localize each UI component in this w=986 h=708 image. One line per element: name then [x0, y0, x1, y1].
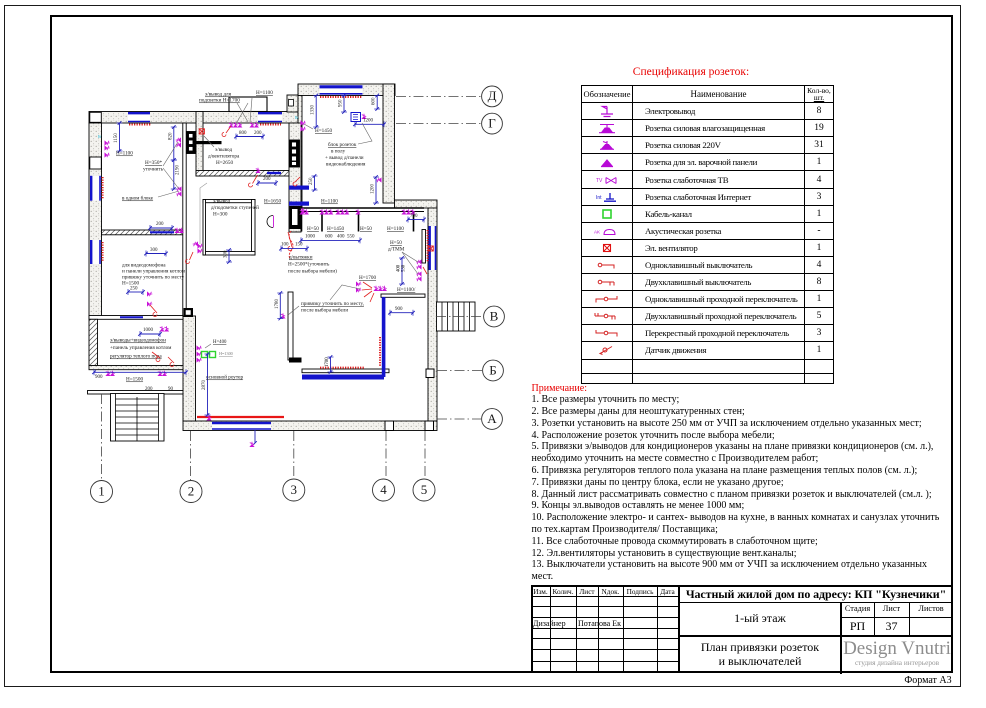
red rays living [362, 282, 374, 302]
svg-text:э/вывод: э/вывод [215, 147, 232, 153]
socket hall top wall [255, 168, 260, 173]
red zigzag kitchen left [289, 231, 293, 259]
svg-text:250: 250 [130, 287, 138, 292]
svg-text:для видеодомофона: для видеодомофона [122, 262, 166, 269]
dim 2870 [205, 352, 211, 417]
svg-text:Н=50: Н=50 [360, 226, 372, 232]
svg-text:д/подсветки ступеней: д/подсветки ступеней [211, 204, 259, 211]
svg-text:А: А [487, 411, 497, 426]
axis line 5 [424, 431, 426, 479]
dim 1780 hall [277, 291, 283, 320]
svg-text:э/вывод: э/вывод [213, 199, 230, 205]
leader H1450 [304, 124, 313, 129]
svg-text:900: 900 [95, 375, 103, 380]
svg-text:300: 300 [150, 248, 158, 253]
svg-text:200: 200 [263, 177, 271, 182]
svg-text:Н=1100: Н=1100 [116, 151, 133, 157]
leader X top [237, 98, 252, 122]
dim kitchen run [299, 237, 362, 243]
svg-text:+ вывод д/панели: + вывод д/панели [325, 155, 364, 161]
radiator living south [320, 367, 364, 369]
svg-text:Н=1100/: Н=1100/ [397, 287, 416, 293]
svg-text:Н=1100: Н=1100 [256, 90, 273, 96]
svg-text:после выбора мебели): после выбора мебели) [288, 268, 337, 275]
leader blok [358, 123, 372, 144]
svg-text:+панель управления котлом: +панель управления котлом [110, 345, 172, 351]
right section text [679, 587, 953, 602]
socket bottom room [206, 415, 211, 420]
leader H400 [205, 344, 211, 348]
switch arrow hall top [249, 175, 258, 187]
svg-text:Н=2500*(уточнить: Н=2500*(уточнить [288, 261, 330, 268]
axis circle В [484, 306, 505, 327]
leader bloke [158, 191, 179, 197]
socket room2 left [174, 228, 184, 233]
socket w7 lower2 [176, 191, 181, 196]
window living east blue band [382, 297, 386, 377]
axis circle Д [482, 86, 503, 107]
socket kitchen row c [335, 209, 349, 214]
dim 820 [171, 125, 177, 162]
format label [878, 675, 978, 686]
svg-text:3: 3 [291, 482, 298, 497]
svg-text:Н=1650: Н=1650 [264, 199, 281, 205]
wall interior room divider left [102, 230, 186, 235]
svg-text:900: 900 [395, 307, 403, 312]
dim 950 [341, 94, 347, 114]
switch arrow boiler [168, 357, 174, 367]
svg-text:основной роутер: основной роутер [206, 374, 243, 381]
shaft squares 2 [290, 140, 300, 167]
socket niche b [416, 271, 421, 281]
column right wall B [426, 369, 434, 378]
axis line 4 [385, 431, 387, 479]
svg-text:200: 200 [145, 387, 153, 392]
radiator left 1 [102, 177, 104, 199]
svg-text:в полу: в полу [331, 149, 346, 155]
svg-text:Н=1100: Н=1100 [387, 226, 404, 232]
wall kitchen shaft column [289, 123, 301, 232]
window living south blue band [302, 375, 384, 380]
wall bedroom right [383, 84, 395, 203]
axis circle А [482, 409, 503, 430]
stairs bottom-left [111, 394, 165, 442]
red rays niche [423, 267, 427, 274]
spec table [581, 85, 834, 384]
socket niche a [416, 259, 421, 269]
socket kitchen row b [319, 209, 333, 214]
socket bedroom left wall b [301, 126, 306, 131]
switch arrow tambour [222, 126, 231, 137]
door blue room divider [150, 231, 174, 233]
socket router wall [197, 345, 202, 350]
window bedroom top [320, 85, 363, 95]
socket router wall c [197, 357, 202, 362]
dim 200 hall [256, 180, 278, 186]
svg-text:Д: Д [488, 88, 497, 103]
svg-text:550: 550 [347, 235, 355, 240]
svg-text:700: 700 [410, 214, 418, 219]
svg-text:2190: 2190 [176, 165, 181, 176]
dim 600 [374, 94, 380, 111]
wall living south [302, 369, 389, 373]
socket w7 lower [176, 186, 181, 191]
svg-text:1330: 1330 [311, 105, 316, 116]
window right wall [429, 226, 437, 270]
svg-text:Н=1450: Н=1450 [327, 226, 344, 232]
leader TMM [402, 252, 418, 274]
svg-text:200: 200 [156, 222, 164, 227]
svg-text:Н=1700: Н=1700 [359, 275, 376, 281]
dim 1700 living [328, 355, 334, 374]
svg-text:Н=1300: Н=1300 [219, 351, 233, 356]
svg-text:530: 530 [402, 264, 407, 272]
dim 900 living [388, 310, 415, 316]
wall wing top [89, 316, 192, 320]
notes [532, 383, 958, 584]
socket room2 left wall [193, 241, 198, 246]
svg-text:1000: 1000 [305, 235, 316, 240]
axis line 3 [293, 431, 295, 479]
axis circle Г [482, 113, 503, 134]
svg-text:820: 820 [169, 132, 174, 140]
socket bath left wall [198, 243, 203, 253]
socket kitchen row a [299, 209, 309, 214]
wall bath left [203, 200, 206, 256]
svg-text:150: 150 [295, 243, 303, 248]
axis line В [436, 316, 483, 318]
socket w7 upper2 [176, 142, 181, 147]
dim 2190 [171, 158, 177, 191]
socket wing bottom b [157, 371, 167, 376]
radiator top-left 2 [260, 124, 281, 126]
floor socket box bedroom [351, 113, 361, 122]
window left wall 2 [90, 240, 101, 264]
svg-text:Н=300: Н=300 [213, 212, 228, 218]
dim 1150 [117, 121, 123, 153]
svg-text:подсветки Н=1700: подсветки Н=1700 [199, 98, 240, 104]
svg-text:5: 5 [421, 482, 428, 497]
svg-text:д/вентилятора: д/вентилятора [208, 154, 240, 160]
svg-text:1000: 1000 [143, 328, 154, 333]
svg-text:В: В [490, 308, 499, 323]
axis line 2 [190, 431, 192, 480]
wall kitchen stub 4 [413, 212, 415, 232]
svg-text:видеонаблюдения: видеонаблюдения [326, 161, 366, 168]
wall bath top [203, 200, 255, 203]
axis line Д [396, 95, 481, 97]
switch arrow boiler2 [152, 352, 160, 362]
axis circle 3 [283, 479, 305, 501]
socket bedroom floor box mark [361, 114, 366, 119]
svg-text:Н=1500: Н=1500 [122, 281, 139, 287]
axis line Б [437, 370, 482, 372]
switch arrow kitchen flex [288, 232, 292, 251]
svg-text:250: 250 [309, 177, 314, 185]
pier block top-left corner [90, 112, 102, 122]
vent fan symbol hall [199, 129, 204, 134]
svg-text:д/ТММ: д/ТММ [388, 247, 405, 253]
dim 250 bedroom [312, 174, 318, 192]
svg-text:950: 950 [339, 99, 344, 107]
left section verticals [550, 585, 551, 673]
window left wall 1 [90, 176, 101, 201]
vent fan symbol right wall [428, 246, 433, 251]
svg-text:Н=350*: Н=350* [145, 160, 162, 166]
title block [0, 0, 986, 1]
axis circle 5 [413, 479, 435, 501]
radiator living east [379, 337, 381, 366]
svg-text:600: 600 [372, 97, 377, 105]
leader privyazku [288, 285, 360, 315]
lintel black [196, 141, 222, 144]
switch arrow room2 [150, 305, 157, 317]
socket left wall lower [105, 152, 110, 157]
dim window bottom [253, 430, 257, 445]
radiator bedroom [320, 96, 362, 98]
svg-text:2870: 2870 [202, 380, 207, 391]
wall bedroom left [298, 96, 302, 209]
leader H350 [163, 142, 179, 189]
axis line 1 [101, 394, 103, 480]
dim 800-200 [234, 134, 265, 140]
window bottom middle [212, 422, 271, 430]
left header labels [531, 587, 550, 596]
axis circle 2 [180, 481, 202, 503]
socket tambour top a [228, 122, 242, 127]
dim 1000 boiler [138, 331, 162, 337]
svg-text:200: 200 [254, 131, 262, 136]
socket router wall b [197, 351, 202, 356]
svg-text:уточнить: уточнить [143, 167, 164, 173]
socket room2 wall b [147, 301, 152, 306]
svg-text:д/вытяжки: д/вытяжки [289, 255, 313, 261]
svg-text:400: 400 [337, 235, 345, 240]
socket bedroom right wall [376, 177, 381, 182]
svg-text:Г: Г [488, 115, 496, 130]
wall bath right [252, 200, 256, 256]
svg-text:4: 4 [380, 482, 387, 497]
dim 250 room2 [126, 289, 145, 295]
svg-text:1780: 1780 [275, 299, 280, 310]
wall bath bottom [203, 252, 255, 256]
svg-text:100: 100 [281, 243, 289, 248]
svg-text:Н=1100: Н=1100 [321, 199, 338, 205]
wall niche back [422, 230, 426, 264]
socket living big cluster [373, 286, 387, 291]
svg-text:600: 600 [325, 235, 333, 240]
socket partition corner a [356, 281, 361, 286]
axis line Г [396, 123, 481, 125]
dim wing bottom [92, 369, 188, 375]
wall kitchen stub 2 [321, 212, 323, 232]
door blue wing [120, 316, 143, 318]
right section lines [679, 602, 953, 603]
column bottom wall 2 [425, 421, 434, 431]
wall wing bottom [88, 391, 186, 395]
wall band right of bedroom [395, 200, 438, 208]
wall left exterior [89, 123, 102, 319]
svg-text:Б: Б [489, 362, 496, 377]
svg-text:Н=50: Н=50 [307, 226, 319, 232]
pier block left wall [90, 157, 102, 169]
axis circle 1 [91, 481, 113, 503]
axis circle 4 [373, 479, 395, 501]
leader stupeni [200, 183, 207, 244]
cable channel green squares [202, 352, 216, 358]
wall hall top [196, 171, 290, 177]
socket kitchen row e [401, 209, 415, 214]
radiator left 2 [102, 242, 104, 262]
left section horizontals [531, 596, 679, 597]
socket hall bottom [280, 313, 285, 318]
wall wing hatch strip [89, 319, 98, 366]
svg-text:Н=400: Н=400 [213, 340, 227, 345]
window top-left 1 [128, 112, 150, 123]
wall wing middle [89, 366, 192, 370]
dim 100-150 [279, 246, 309, 252]
svg-text:в одном блоке: в одном блоке [122, 195, 154, 202]
canopy above entrance [229, 97, 267, 112]
door blue hall top [267, 172, 281, 174]
svg-text:800: 800 [239, 131, 247, 136]
switch arrow bath [186, 252, 194, 264]
axis line А [437, 418, 481, 420]
socket partition corner b [356, 287, 361, 292]
wall bedroom top exterior [298, 84, 395, 96]
wall column tambour-bedroom corner [287, 95, 298, 112]
dim 1200 bedroom [353, 121, 386, 127]
wall kitchen north [301, 208, 424, 212]
shaft squares 1 [187, 132, 196, 154]
wall living partition cap [289, 358, 302, 363]
dim 1330 [313, 94, 319, 129]
socket below window [249, 442, 254, 447]
radiator top-left 1 [129, 124, 151, 126]
svg-text:регулятор теплого пола: регулятор теплого пола [110, 354, 162, 360]
leader ventilator [204, 136, 214, 147]
svg-text:2: 2 [188, 483, 195, 498]
wall kitchen stub 1 [301, 212, 303, 232]
svg-text:привязку уточнить по месту,: привязку уточнить по месту, [301, 301, 364, 307]
wall interior vertical w7 [183, 123, 186, 316]
column hall corner [184, 308, 194, 317]
dim 700 kitchen right [406, 217, 426, 223]
svg-text:1200: 1200 [363, 119, 374, 124]
wall living partition [288, 292, 293, 360]
socket bedroom left wall [301, 120, 306, 125]
socket boiler top [159, 326, 169, 331]
svg-text:Н=50: Н=50 [390, 240, 402, 246]
dim 300 bath [226, 248, 232, 264]
wall corridor vertical w9 [183, 316, 196, 421]
svg-text:блок розеток: блок розеток [328, 141, 357, 148]
svg-text:э/выводы+видеодомофон: э/выводы+видеодомофон [110, 337, 166, 344]
socket cluster left wall top [105, 140, 110, 150]
column bottom wall 1 [385, 421, 394, 431]
svg-text:Н=1500: Н=1500 [126, 377, 143, 383]
socket wing bottom a [105, 371, 115, 376]
stairs right side [437, 302, 476, 331]
dim 300 room2 [144, 251, 168, 257]
red rays bedroom [293, 177, 300, 186]
socket kitchen row d [355, 209, 360, 214]
door arc tick [273, 216, 275, 228]
spec table title [581, 66, 801, 78]
axis circle Б [483, 360, 504, 381]
svg-text:1: 1 [98, 483, 105, 498]
window top-left 2 [258, 112, 282, 123]
svg-text:1700: 1700 [325, 357, 330, 367]
socket bedroom bottom wall a [300, 208, 305, 213]
wall top-left exterior [89, 112, 298, 124]
dim 200 room1 [148, 225, 174, 231]
wall corridor vertical w8 [196, 112, 203, 177]
dim 400-530 [399, 256, 405, 286]
socket room2 wall a [147, 291, 152, 296]
svg-text:Н=1450: Н=1450 [315, 128, 332, 134]
svg-text:Н=2650: Н=2650 [216, 160, 233, 166]
wall bottom exterior [183, 421, 437, 431]
heated floor red line [197, 416, 284, 418]
svg-text:90: 90 [168, 387, 174, 392]
shaft block lower [290, 206, 301, 229]
wall right exterior [428, 208, 437, 421]
wall kitchen south niche [381, 294, 425, 297]
door arc bath [267, 216, 273, 228]
socket w7 upper [176, 137, 181, 142]
window corridor-kitchen strips [289, 186, 309, 206]
socket tambour top b [249, 122, 259, 127]
svg-text:300: 300 [224, 250, 229, 258]
dim 1200 bedroom right [373, 175, 379, 205]
radiator right wall [427, 230, 429, 262]
svg-text:после выбора мебели: после выбора мебели [301, 307, 348, 314]
svg-text:1150: 1150 [114, 133, 119, 143]
wall kitchen stub 3 [358, 212, 360, 232]
svg-text:1200: 1200 [371, 184, 376, 195]
